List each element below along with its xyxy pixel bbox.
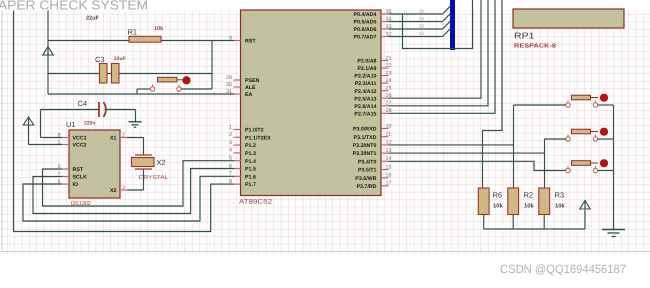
wire RP1 line 4 to R6 xyxy=(483,0,503,188)
resistor R3 xyxy=(539,188,550,215)
wire P3.2 net to button K1 / R2 xyxy=(389,105,566,188)
wire U1 power to VCC2 xyxy=(29,125,63,145)
MCU pin 2 P1.1/T2EX (left) xyxy=(229,132,271,141)
X2 value label CRYSTAL xyxy=(139,175,169,181)
wire C4 left to U1 VCC1 xyxy=(41,110,63,138)
svg-text:X2: X2 xyxy=(110,188,117,194)
svg-text:RP1: RP1 xyxy=(514,31,535,41)
MCU pin 32 P0.7/AD7 (right) xyxy=(354,31,392,40)
svg-text:P1.7: P1.7 xyxy=(245,182,256,188)
svg-text:PSEN: PSEN xyxy=(245,78,260,84)
watermark xyxy=(500,262,626,276)
MCU pin 5 P1.4 (left) xyxy=(229,156,256,165)
svg-text:P0.4/AD4: P0.4/AD4 xyxy=(354,12,377,18)
C3 value label 22uF xyxy=(114,56,126,62)
svg-text:VCC1: VCC1 xyxy=(73,136,87,142)
push button (reset) red actuator dot xyxy=(182,76,190,84)
svg-text:220n: 220n xyxy=(84,120,95,126)
MCU value label AT89C52 xyxy=(239,199,272,206)
MCU pin 31 EA (left) xyxy=(226,89,253,98)
svg-text:VCC2: VCC2 xyxy=(73,143,87,149)
svg-text:IO: IO xyxy=(73,182,79,188)
push button K1 pins xyxy=(566,101,598,108)
MCU pin 35 P0.4/AD4 (right) xyxy=(354,9,392,18)
U1 pin 2 X1 (right) xyxy=(110,133,127,142)
MCU pin 34 P0.5/AD5 (right) xyxy=(354,16,392,25)
svg-text:10k: 10k xyxy=(555,203,565,210)
MCU pin 33 P0.6/AD6 (right) xyxy=(354,24,392,33)
wire R2 bottom xyxy=(512,215,514,230)
svg-text:C4: C4 xyxy=(78,99,88,108)
svg-text:P1.6: P1.6 xyxy=(245,174,256,180)
svg-text:P3.6/WR: P3.6/WR xyxy=(355,176,376,182)
svg-text:P3.7/RD: P3.7/RD xyxy=(356,184,376,190)
push button (reset) pins xyxy=(150,85,181,92)
R6 ref label xyxy=(493,191,503,200)
push button K1 red actuator dot xyxy=(600,94,608,102)
push button K3 red actuator dot xyxy=(600,159,608,167)
svg-text:R6: R6 xyxy=(493,191,503,200)
bus entry label xyxy=(419,24,425,29)
svg-text:APER CHECK SYSTEM: APER CHECK SYSTEM xyxy=(0,0,148,13)
wire resistor bottom rail xyxy=(484,228,585,230)
U1 pin 7 SCLK (left) xyxy=(58,172,87,181)
svg-text:22uF: 22uF xyxy=(114,56,126,62)
MCU pin 21 P2.0/A8 (right) xyxy=(357,55,391,64)
U1 pin 8 VCC1 (left) xyxy=(58,133,87,142)
resistor R6 xyxy=(478,188,489,215)
wire P3.4 net to button K3 xyxy=(389,161,566,170)
bus entry label xyxy=(419,9,425,14)
MCU pin 27 P2.6/A14 (right) xyxy=(354,101,391,110)
svg-text:CSDN @QQ1694456187: CSDN @QQ1694456187 xyxy=(500,262,626,276)
MCU pin 23 P2.2/A10 (right) xyxy=(354,70,391,79)
svg-text:16: 16 xyxy=(386,173,392,179)
RP1 ref label xyxy=(514,31,535,41)
svg-text:R1: R1 xyxy=(128,28,138,37)
wire U1 X1 to crystal xyxy=(127,138,144,156)
small value label above (cropped component) xyxy=(86,16,99,22)
wire P0.7 to bus xyxy=(389,28,451,36)
wire K2 right pin to ground rail xyxy=(598,138,614,140)
MCU pin 3 P1.2 (left) xyxy=(229,140,256,149)
svg-text:R3: R3 xyxy=(555,191,565,200)
svg-text:R2: R2 xyxy=(524,191,534,200)
svg-text:P1.2: P1.2 xyxy=(245,143,256,149)
wire reset button right pin xyxy=(181,88,212,90)
ground symbol (C4) xyxy=(129,122,142,128)
svg-text:15: 15 xyxy=(386,164,392,170)
C3 ref label xyxy=(95,55,105,64)
svg-text:23: 23 xyxy=(386,70,392,76)
R3 ref label xyxy=(555,191,565,200)
svg-text:22uF: 22uF xyxy=(86,16,99,22)
svg-text:33: 33 xyxy=(419,24,425,29)
resistor pack RP1 body xyxy=(513,9,624,28)
svg-text:25: 25 xyxy=(386,86,392,92)
svg-text:10k: 10k xyxy=(493,203,503,210)
power symbol VCC (U1) xyxy=(23,117,33,126)
svg-text:SCLK: SCLK xyxy=(73,175,88,181)
svg-text:3: 3 xyxy=(122,185,125,191)
svg-text:30: 30 xyxy=(226,82,232,88)
MCU pin 17 P3.7/RD (right) xyxy=(356,181,391,190)
MCU pin 16 P3.6/WR (right) xyxy=(355,173,391,182)
MCU pin 6 P1.5 (left) xyxy=(229,163,256,172)
MCU pin 14 P3.4/T0 (right) xyxy=(358,156,392,165)
wire VCC vertical left xyxy=(47,11,49,95)
svg-text:P2.3/A11: P2.3/A11 xyxy=(355,81,377,87)
wire RST to reset button vertical xyxy=(211,41,213,90)
svg-text:P1.5: P1.5 xyxy=(245,167,256,173)
wire RST net horizontal xyxy=(48,40,235,42)
svg-text:P1.4: P1.4 xyxy=(245,159,256,165)
U1 ref label xyxy=(66,120,76,129)
push button K2 bar xyxy=(572,129,599,134)
push button K2 pins xyxy=(566,135,598,142)
C4 value label xyxy=(84,120,95,126)
RP1 value label RESPACK-8 xyxy=(514,43,557,50)
svg-text:P2.0/A8: P2.0/A8 xyxy=(357,59,376,65)
svg-text:17: 17 xyxy=(386,181,392,187)
MCU pin 10 P3.0/RXD (right) xyxy=(353,123,392,132)
push button K1 bar xyxy=(572,95,599,100)
svg-text:3: 3 xyxy=(229,140,232,146)
svg-text:29: 29 xyxy=(226,75,232,81)
resistor R2 xyxy=(508,188,519,215)
svg-text:10: 10 xyxy=(386,123,392,129)
svg-text:P1.3: P1.3 xyxy=(245,151,256,157)
svg-text:P2.4/A12: P2.4/A12 xyxy=(354,89,376,95)
resistor R1 xyxy=(129,36,161,42)
wire ground rail xyxy=(613,105,615,230)
MCU pin 15 P3.5/T1 (right) xyxy=(358,164,392,173)
IC U1 DS1302 body xyxy=(69,130,120,198)
crystal X2 xyxy=(132,155,155,169)
svg-text:P3.5/T1: P3.5/T1 xyxy=(358,168,377,174)
wire P2.7 to RP1 line 3 xyxy=(389,0,496,113)
capacitor C4 plates xyxy=(99,102,106,117)
push button K3 bar xyxy=(572,161,599,166)
MCU pin 4 P1.3 (left) xyxy=(229,148,256,157)
power symbol VCC (resistors) xyxy=(580,200,590,209)
svg-text:P3.1/TXD: P3.1/TXD xyxy=(354,135,377,141)
wire P0.6 to bus xyxy=(389,21,451,29)
X2 ref label xyxy=(157,158,166,167)
MCU pin 11 P3.1/TXD (right) xyxy=(354,132,392,141)
MCU U2 AT89C52 body xyxy=(241,10,382,196)
MCU pin 25 P2.4/A12 (right) xyxy=(354,86,391,95)
title text PAPER CHECK SYSTEM xyxy=(0,0,148,13)
bus (blue) xyxy=(450,0,455,50)
capacitor C3 plates xyxy=(100,64,120,84)
svg-text:24: 24 xyxy=(386,78,392,84)
svg-text:10k: 10k xyxy=(524,203,534,210)
svg-text:P2.5/A13: P2.5/A13 xyxy=(354,96,376,102)
wire P3.3 net to button K2 / R3 xyxy=(389,139,566,188)
svg-text:X2: X2 xyxy=(157,158,166,167)
svg-text:4: 4 xyxy=(229,148,232,154)
svg-text:1: 1 xyxy=(229,124,232,130)
bus entry label xyxy=(419,16,425,21)
R2 ref label xyxy=(524,191,534,200)
svg-text:22: 22 xyxy=(386,63,392,69)
svg-text:P2.7/A15: P2.7/A15 xyxy=(354,111,376,117)
wire R3 bottom xyxy=(543,215,545,230)
svg-text:2: 2 xyxy=(229,132,232,138)
wire U1 RST to MCU P1.4 xyxy=(43,161,235,206)
svg-text:P3.4/T0: P3.4/T0 xyxy=(358,159,377,165)
svg-text:35: 35 xyxy=(419,9,425,14)
U1 pin 5 RST (left) xyxy=(58,164,84,173)
push button (reset) bar xyxy=(158,77,183,82)
MCU pin 1 P1.0/T2 (left) xyxy=(229,124,264,133)
svg-text:ALE: ALE xyxy=(245,85,256,91)
svg-text:P3.3/INT1: P3.3/INT1 xyxy=(353,151,377,157)
wire reset button left pin to EA rail xyxy=(137,89,150,94)
wire P0.4 to bus xyxy=(389,6,451,14)
svg-text:32: 32 xyxy=(419,31,425,36)
svg-text:34: 34 xyxy=(419,16,425,21)
wire P2.5 to RP1 line 1 xyxy=(389,0,482,98)
R1 ref label xyxy=(128,28,138,37)
R2 value label 10k xyxy=(524,203,534,210)
MCU pin 12 P3.2/INT0 (right) xyxy=(353,140,392,149)
svg-text:P1.1/T2EX: P1.1/T2EX xyxy=(245,135,271,141)
MCU pin 30 ALE (left) xyxy=(226,82,256,91)
MCU pin 13 P3.3/INT1 (right) xyxy=(353,148,392,157)
svg-text:2: 2 xyxy=(122,133,125,139)
R6 value label 10k xyxy=(493,203,503,210)
ground symbol (buttons) xyxy=(602,230,625,237)
capacitor C3 wire xyxy=(48,73,212,75)
svg-text:P3.2/INT0: P3.2/INT0 xyxy=(353,143,377,149)
svg-text:P0.5/AD5: P0.5/AD5 xyxy=(354,20,377,26)
wire EA net horizontal xyxy=(48,93,235,95)
wire crystal to U1 X2 xyxy=(127,169,144,190)
svg-text:10k: 10k xyxy=(154,26,164,32)
bus entry label xyxy=(419,31,425,36)
svg-text:P2.2/A10: P2.2/A10 xyxy=(354,74,376,80)
svg-text:11: 11 xyxy=(386,132,392,138)
MCU pin 29 PSEN (left) xyxy=(226,75,260,84)
svg-text:RST: RST xyxy=(73,167,84,173)
svg-text:8: 8 xyxy=(58,133,61,139)
svg-text:EA: EA xyxy=(245,92,253,98)
svg-text:U1: U1 xyxy=(66,120,76,129)
MCU pin 7 P1.6 (left) xyxy=(229,171,256,180)
push button K3 pins xyxy=(566,166,598,173)
svg-text:21: 21 xyxy=(386,55,392,61)
R3 value label 10k xyxy=(555,203,565,210)
wire bus hook to top xyxy=(403,0,473,49)
wire U1 IO to MCU P1.6 xyxy=(23,176,234,221)
svg-text:P2.6/A14: P2.6/A14 xyxy=(354,104,376,110)
svg-text:X1: X1 xyxy=(110,136,117,142)
MCU pin 28 P2.7/A15 (right) xyxy=(354,108,391,117)
wire R6 bottom xyxy=(483,215,485,230)
MCU pin 9 RST (left) xyxy=(229,35,256,44)
MCU pin 22 P2.1/A9 (right) xyxy=(357,63,391,72)
wire U1 SCLK to MCU P1.5 xyxy=(33,169,234,214)
svg-text:1: 1 xyxy=(58,140,61,146)
wire rail to power arrow xyxy=(584,210,586,229)
wire K1 right pin to ground rail xyxy=(598,104,614,106)
svg-text:RESPACK-8: RESPACK-8 xyxy=(514,43,557,50)
MCU pin 26 P2.5/A13 (right) xyxy=(354,93,391,102)
R1 value label 10k xyxy=(154,26,164,32)
svg-text:RST: RST xyxy=(245,39,256,45)
svg-text:P0.7/AD7: P0.7/AD7 xyxy=(354,35,377,41)
svg-text:P1.0/T2: P1.0/T2 xyxy=(245,128,264,134)
capacitor C4 ref label xyxy=(78,99,88,108)
MCU pin 8 P1.7 (left) xyxy=(229,179,256,188)
svg-text:P3.0/RXD: P3.0/RXD xyxy=(353,127,377,133)
wire C4 to ground xyxy=(135,110,137,122)
svg-text:P0.6/AD6: P0.6/AD6 xyxy=(354,27,377,33)
U1 pin 1 VCC2 (left) xyxy=(58,140,87,149)
U1 pin 6 IO (left) xyxy=(58,179,78,188)
wire left rail to MCU P1.7 (outer route) xyxy=(14,11,235,232)
MCU pin 24 P2.3/A11 (right) xyxy=(355,78,392,87)
power symbol VCC (reset rail) xyxy=(43,46,53,55)
svg-text:C3: C3 xyxy=(95,55,105,64)
wire P0.5 to bus xyxy=(389,13,451,21)
U1 pin 3 X2 (right) xyxy=(110,185,127,194)
svg-text:AT89C52: AT89C52 xyxy=(239,199,272,206)
svg-text:P2.1/A9: P2.1/A9 xyxy=(357,66,376,72)
wire K3 right pin to ground rail xyxy=(598,170,614,172)
capacitor C4 wires xyxy=(41,109,136,111)
wire P2.6 to RP1 line 2 xyxy=(389,0,489,106)
U1 value label DS1302 xyxy=(71,201,91,207)
push button K2 red actuator dot xyxy=(600,128,608,136)
